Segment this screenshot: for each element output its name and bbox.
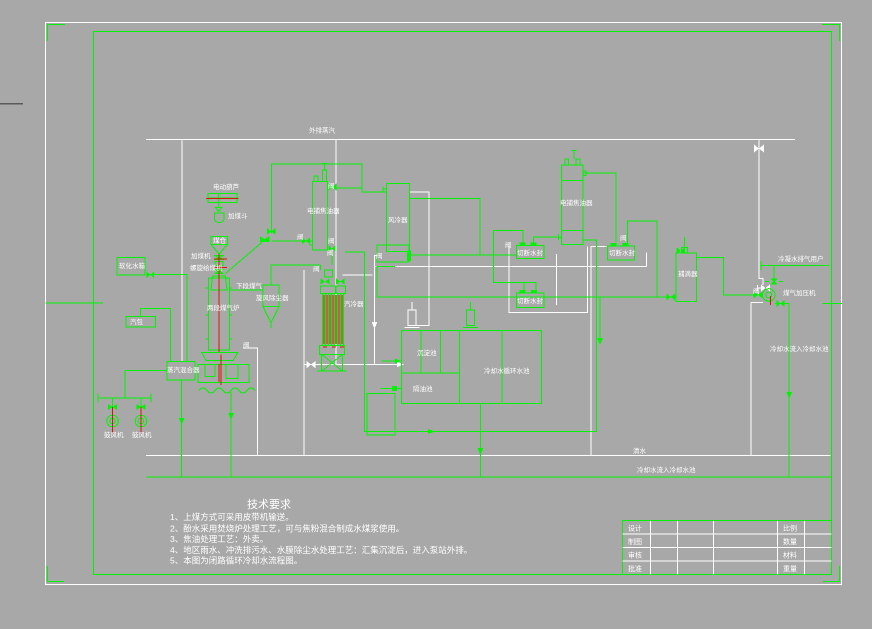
svg-text:蒸汽混合器: 蒸汽混合器 bbox=[167, 365, 200, 374]
svg-text:切断水封: 切断水封 bbox=[517, 248, 544, 257]
svg-text:鼓风机: 鼓风机 bbox=[132, 430, 152, 439]
svg-text:鼓风机: 鼓风机 bbox=[104, 430, 124, 439]
svg-text:冷却水循环水池: 冷却水循环水池 bbox=[484, 366, 530, 375]
svg-text:阀: 阀 bbox=[297, 232, 304, 241]
svg-text:电捕焦油器: 电捕焦油器 bbox=[307, 206, 340, 215]
svg-text:阀: 阀 bbox=[328, 181, 335, 190]
svg-text:两段煤气炉: 两段煤气炉 bbox=[207, 303, 240, 312]
svg-text:1、上煤方式可采用皮带机输送。: 1、上煤方式可采用皮带机输送。 bbox=[170, 512, 294, 522]
svg-text:4、地区雨水、冲洗排污水、水膜除尘水处理工艺：汇集沉淀后，进: 4、地区雨水、冲洗排污水、水膜除尘水处理工艺：汇集沉淀后，进入泵站外排。 bbox=[170, 545, 472, 555]
svg-text:捕滴器: 捕滴器 bbox=[678, 269, 698, 278]
svg-text:阀: 阀 bbox=[327, 248, 334, 257]
svg-text:旋风除尘器: 旋风除尘器 bbox=[256, 293, 289, 302]
svg-text:电捕焦油器: 电捕焦油器 bbox=[560, 198, 593, 207]
svg-text:阀: 阀 bbox=[620, 233, 627, 242]
svg-text:阀: 阀 bbox=[753, 286, 760, 295]
svg-text:冷却水流入冷却水池: 冷却水流入冷却水池 bbox=[637, 465, 696, 474]
svg-text:阀: 阀 bbox=[328, 236, 335, 245]
svg-text:沉淀池: 沉淀池 bbox=[417, 348, 437, 357]
svg-text:软化水箱: 软化水箱 bbox=[119, 261, 146, 270]
svg-text:制图: 制图 bbox=[628, 537, 642, 546]
svg-text:下段煤气: 下段煤气 bbox=[236, 281, 263, 290]
svg-text:审核: 审核 bbox=[628, 551, 642, 560]
svg-text:煤仓: 煤仓 bbox=[213, 236, 227, 245]
svg-text:隔油池: 隔油池 bbox=[413, 384, 433, 393]
svg-text:汽冷器: 汽冷器 bbox=[344, 299, 364, 308]
svg-text:清水: 清水 bbox=[633, 446, 647, 455]
svg-text:批准: 批准 bbox=[628, 564, 642, 573]
svg-text:加煤机: 加煤机 bbox=[191, 251, 211, 260]
svg-text:阀: 阀 bbox=[505, 240, 512, 249]
svg-text:设计: 设计 bbox=[628, 524, 642, 533]
svg-text:5、本图为闭路循环冷却水流程图。: 5、本图为闭路循环冷却水流程图。 bbox=[170, 556, 302, 566]
svg-text:冷凝水排气用户: 冷凝水排气用户 bbox=[778, 254, 824, 263]
svg-text:冷却水流入冷却水池: 冷却水流入冷却水池 bbox=[770, 344, 829, 353]
svg-text:材料: 材料 bbox=[783, 551, 797, 560]
svg-text:比例: 比例 bbox=[783, 524, 797, 533]
svg-text:切断水封: 切断水封 bbox=[609, 248, 636, 257]
svg-text:风冷器: 风冷器 bbox=[388, 215, 408, 224]
svg-text:电动葫芦: 电动葫芦 bbox=[213, 182, 240, 191]
svg-text:2、酚水采用焚烧炉处理工艺，可与焦粉混合制成水煤浆使用。: 2、酚水采用焚烧炉处理工艺，可与焦粉混合制成水煤浆使用。 bbox=[170, 524, 404, 534]
svg-text:技术要求: 技术要求 bbox=[247, 498, 291, 511]
svg-text:阀: 阀 bbox=[313, 264, 320, 273]
svg-text:煤气加压机: 煤气加压机 bbox=[783, 288, 816, 297]
svg-text:重量: 重量 bbox=[783, 565, 797, 573]
svg-text:加煤斗: 加煤斗 bbox=[228, 211, 248, 220]
svg-text:汽包: 汽包 bbox=[130, 317, 144, 326]
svg-text:切断水封: 切断水封 bbox=[517, 296, 544, 305]
svg-text:3、焦油处理工艺：外卖。: 3、焦油处理工艺：外卖。 bbox=[170, 534, 268, 544]
svg-text:螺旋给煤机: 螺旋给煤机 bbox=[190, 263, 223, 272]
svg-text:阀: 阀 bbox=[243, 340, 250, 349]
svg-text:外排蒸汽: 外排蒸汽 bbox=[309, 126, 336, 135]
svg-text:阀: 阀 bbox=[376, 251, 383, 260]
svg-text:数量: 数量 bbox=[783, 537, 797, 546]
